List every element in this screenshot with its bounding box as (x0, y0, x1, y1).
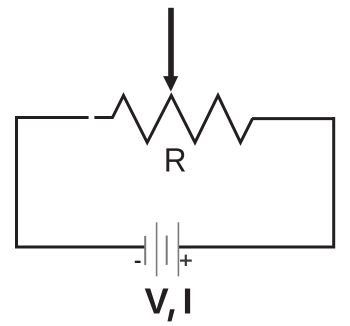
wire: top stub between gap and resistor (94, 116, 113, 119)
wire: left vertical segment (15, 116, 18, 249)
label V (voltage) (145, 281, 169, 322)
label comma after V (168, 309, 175, 321)
battery B1: long plate 2 (positive) (178, 222, 180, 276)
label R (resistance) (164, 143, 187, 180)
svg-text:R: R (164, 143, 187, 180)
arrow: wiper adjustment indicator head (163, 76, 178, 92)
resistor R1 (zigzag) (113, 96, 253, 143)
battery B1: short plate 1 (negative) (144, 236, 146, 265)
wire: right vertical segment (332, 117, 335, 248)
svg-text:I: I (183, 281, 193, 322)
battery B1: long plate 1 (156, 222, 158, 276)
battery B1: short plate 2 (166, 236, 168, 265)
arrow: wiper adjustment indicator shaft (168, 8, 174, 77)
wire: bottom-left horizontal segment (to battery negative plate) (15, 246, 145, 249)
label I (current) (183, 281, 193, 322)
battery polarity label - (minus) (135, 261, 141, 263)
wire: top-right horizontal segment (252, 117, 335, 120)
battery polarity label + (plus) (180, 255, 192, 266)
wire: top-left horizontal segment (15, 116, 89, 119)
svg-text:V: V (145, 281, 169, 322)
wire: bottom-right horizontal segment (from battery positive plate) (179, 246, 335, 249)
